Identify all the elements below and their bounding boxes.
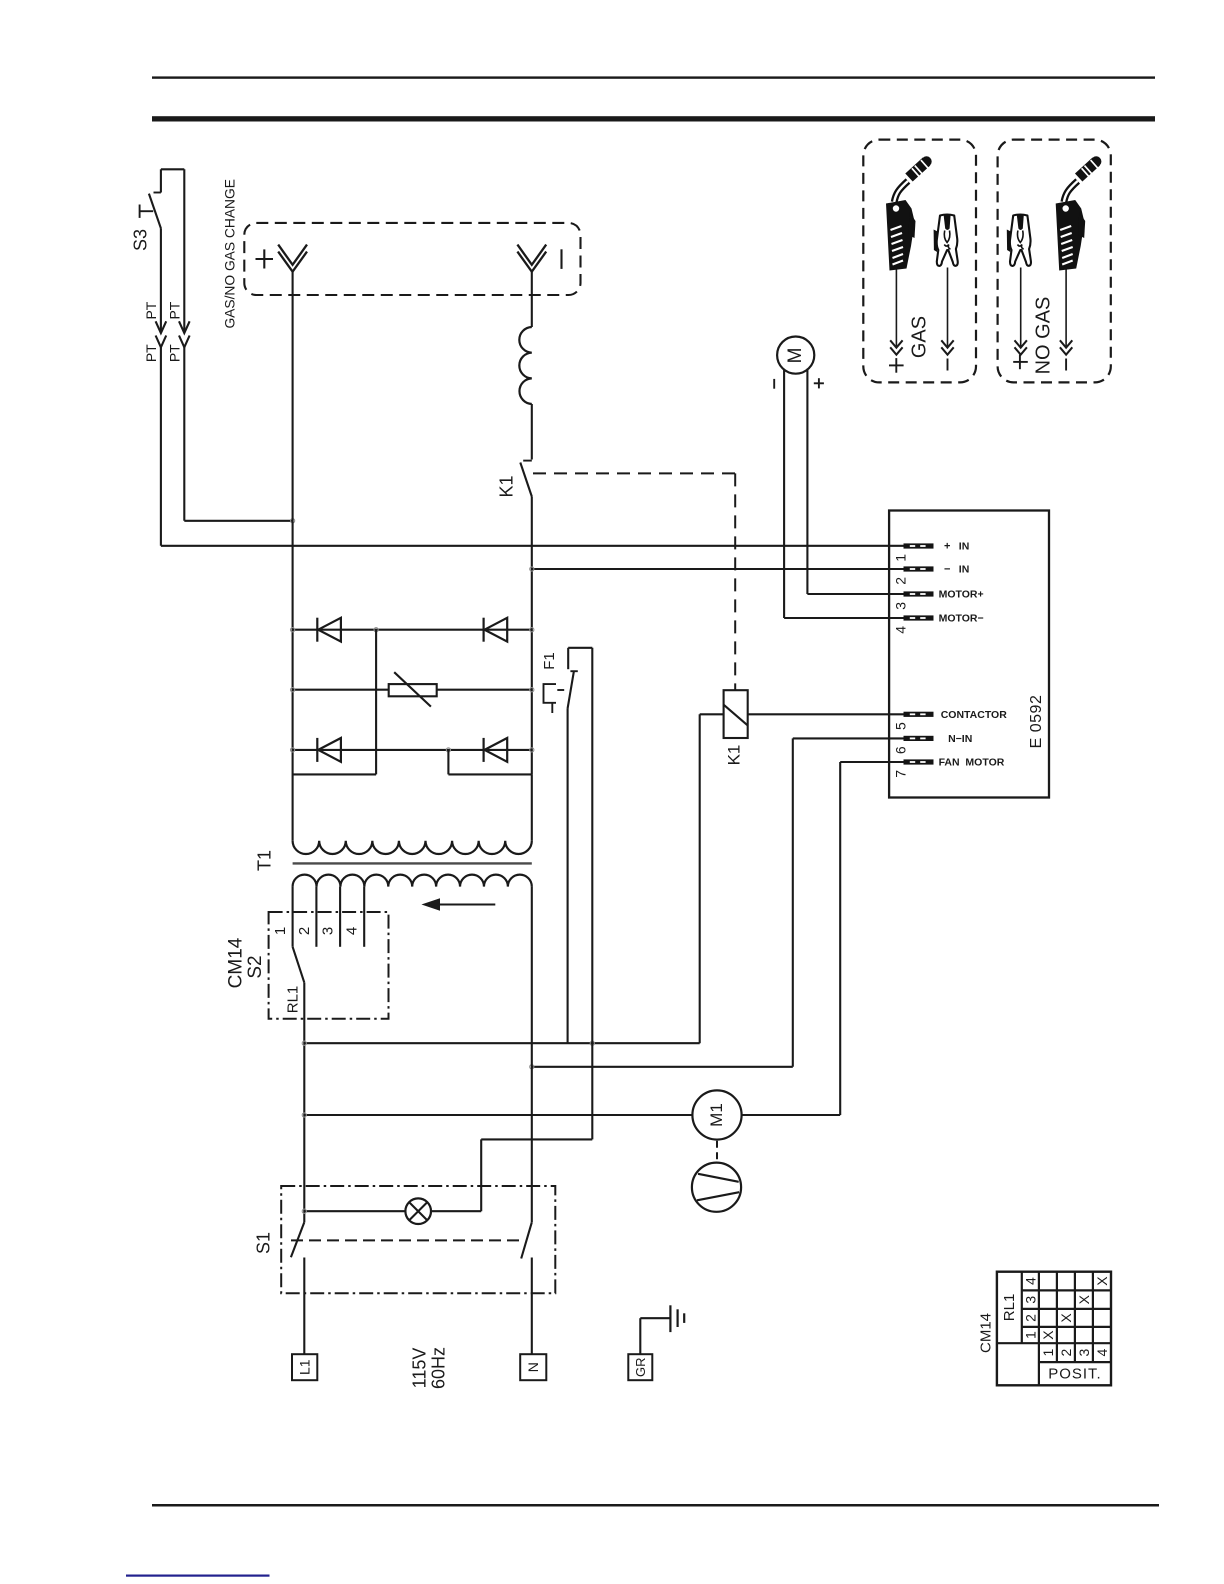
- svg-text:N: N: [525, 1362, 541, 1372]
- svg-text:MOTOR+: MOTOR+: [939, 589, 984, 601]
- svg-text:CM14: CM14: [978, 1313, 995, 1353]
- svg-text:X: X: [1040, 1330, 1056, 1340]
- svg-text:CONTACTOR: CONTACTOR: [941, 709, 1008, 721]
- svg-text:RL1: RL1: [285, 986, 302, 1014]
- svg-text:1: 1: [892, 554, 908, 562]
- svg-text:4: 4: [344, 927, 361, 935]
- svg-text:K1: K1: [725, 745, 744, 766]
- svg-text:3: 3: [1022, 1296, 1038, 1304]
- svg-text:3: 3: [892, 602, 908, 610]
- svg-text:IN: IN: [959, 541, 970, 553]
- svg-text:GR: GR: [633, 1357, 648, 1377]
- svg-text:T1: T1: [255, 850, 275, 871]
- svg-text:3: 3: [320, 927, 337, 935]
- svg-text:4: 4: [1022, 1277, 1038, 1285]
- svg-text:115V: 115V: [410, 1348, 430, 1389]
- svg-text:M: M: [785, 347, 806, 363]
- svg-text:6: 6: [892, 746, 908, 754]
- svg-text:4: 4: [892, 626, 908, 634]
- svg-text:2: 2: [296, 927, 313, 935]
- svg-text:F1: F1: [541, 652, 558, 670]
- svg-text:−: −: [944, 564, 950, 576]
- svg-text:PT: PT: [167, 344, 183, 362]
- svg-text:E 0592: E 0592: [1028, 695, 1045, 749]
- svg-text:S1: S1: [254, 1232, 274, 1254]
- svg-text:CM14: CM14: [226, 937, 247, 988]
- svg-text:MOTOR−: MOTOR−: [939, 613, 984, 625]
- svg-text:IN: IN: [959, 564, 970, 576]
- svg-text:3: 3: [1076, 1349, 1092, 1357]
- svg-text:X: X: [1094, 1276, 1110, 1286]
- svg-text:PT: PT: [143, 344, 159, 362]
- svg-text:GAS: GAS: [909, 316, 931, 358]
- svg-text:PT: PT: [143, 301, 159, 319]
- svg-text:S3: S3: [131, 229, 151, 251]
- svg-text:S2: S2: [245, 955, 266, 978]
- svg-text:2: 2: [892, 577, 908, 585]
- svg-text:POSIT.: POSIT.: [1048, 1366, 1102, 1383]
- svg-text:5: 5: [892, 722, 908, 730]
- svg-text:X: X: [1058, 1313, 1074, 1323]
- svg-text:1: 1: [272, 927, 289, 935]
- svg-text:GAS/NO GAS CHANGE: GAS/NO GAS CHANGE: [222, 179, 237, 329]
- svg-text:+: +: [944, 541, 950, 553]
- svg-text:K1: K1: [497, 475, 517, 497]
- svg-text:2: 2: [1022, 1314, 1038, 1322]
- svg-text:PT: PT: [167, 301, 183, 319]
- svg-text:L1: L1: [297, 1359, 313, 1375]
- svg-text:2: 2: [1058, 1349, 1074, 1357]
- svg-text:60Hz: 60Hz: [429, 1347, 449, 1389]
- svg-text:1: 1: [1022, 1331, 1038, 1339]
- svg-text:4: 4: [1094, 1349, 1110, 1357]
- svg-text:FAN MOTOR: FAN MOTOR: [939, 757, 1005, 769]
- svg-text:7: 7: [892, 770, 908, 778]
- svg-text:1: 1: [1040, 1349, 1056, 1357]
- svg-text:N−IN: N−IN: [948, 733, 972, 745]
- svg-text:NO GAS: NO GAS: [1033, 297, 1055, 375]
- svg-text:X: X: [1076, 1294, 1092, 1304]
- svg-text:M1: M1: [707, 1103, 726, 1127]
- svg-text:RL1: RL1: [1001, 1294, 1018, 1322]
